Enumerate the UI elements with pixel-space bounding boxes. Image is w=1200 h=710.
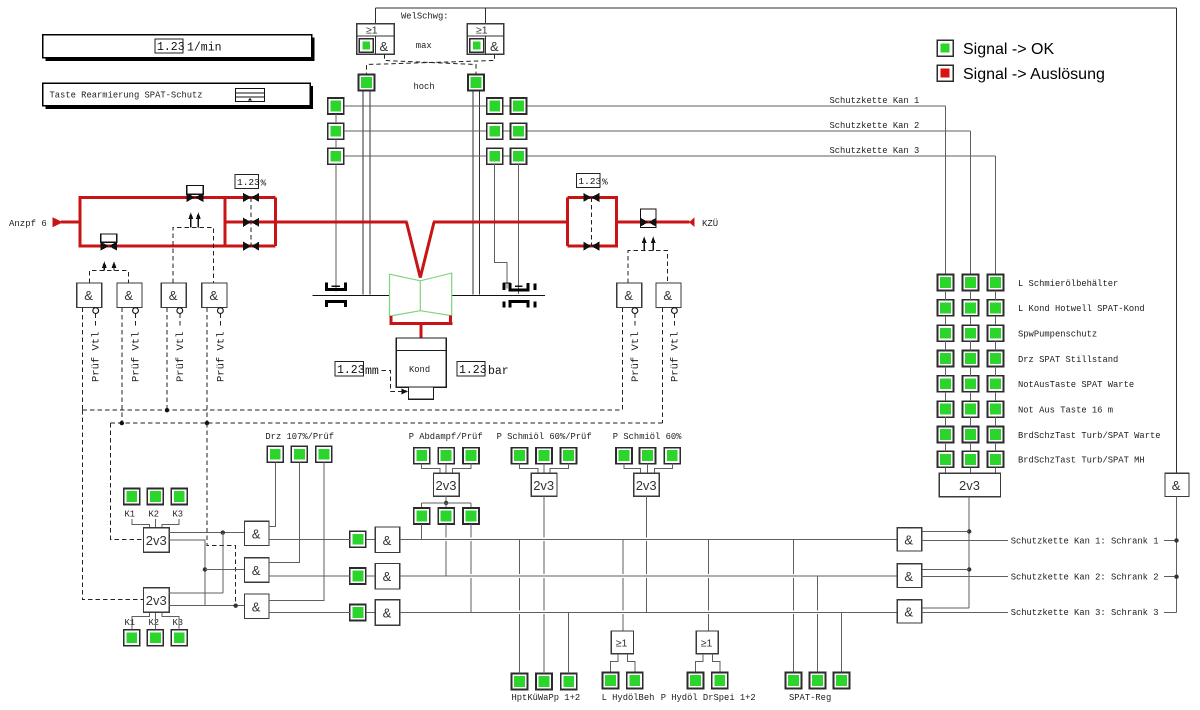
red feed arrow (53, 217, 64, 227)
loop2 valve bottom (583, 242, 599, 251)
actuator arrows valve V2 (102, 261, 117, 270)
svg-text:1.23: 1.23 (157, 41, 185, 54)
svg-text:Drz SPAT Stillstand: Drz SPAT Stillstand (1018, 355, 1118, 365)
bus Schutzkette 2 mid (400, 575, 897, 577)
indicator row3 (350, 604, 366, 620)
svg-text:P Schmiöl 60%: P Schmiöl 60% (613, 432, 682, 442)
actuator dashed link valve V1 (173, 227, 214, 283)
svg-text:max: max (416, 41, 432, 51)
indicator hoch right (468, 74, 484, 90)
OR gate L HydoelBeh (622, 539, 624, 631)
dashed cross wire right-to-left (367, 54, 495, 74)
turbine outline (390, 273, 452, 316)
wire 2v3 lower out2 to AND B3 (169, 605, 245, 607)
red pipe mid to turbine and on (276, 221, 408, 224)
svg-text:BrdSchzTast Turb/SPAT Warte: BrdSchzTast Turb/SPAT Warte (1018, 431, 1161, 441)
bearing left lower (327, 302, 346, 308)
2v3 box G2 (531, 473, 557, 496)
dashed valve link manifold (250, 197, 252, 246)
svg-text:K2: K2 (149, 618, 160, 628)
legend Ausloesung (937, 65, 1105, 83)
svg-text:L Schmierölbehälter: L Schmierölbehälter (1018, 279, 1118, 289)
HptKueWaPp squares (511, 674, 527, 690)
actuator dashed link valve KZU (628, 251, 667, 283)
svg-text:Schutzkette Kan 1: Schrank 1: Schutzkette Kan 1: Schrank 1 (1011, 536, 1159, 546)
wires B outputs to indicators (269, 538, 350, 540)
actuator arrows valve KZU (642, 237, 656, 251)
dashed drop bus2 to 2v3 K-upper (111, 423, 145, 539)
G2 fan-in wires (519, 464, 538, 474)
svg-text:KZÜ: KZÜ (702, 218, 718, 229)
wire row Kan 2 (344, 130, 971, 132)
svg-text:Signal -> Auslösung: Signal -> Auslösung (963, 66, 1105, 83)
svg-text:&: & (1172, 478, 1181, 493)
G1 squares upper (414, 448, 430, 464)
right matrix squares col1 (938, 275, 954, 468)
svg-text:≥1: ≥1 (476, 25, 488, 37)
svg-text:&: & (252, 527, 261, 542)
svg-text:1.23: 1.23 (459, 364, 487, 377)
AND box A2 (117, 283, 143, 423)
svg-text:&: & (209, 288, 218, 303)
wire Drz2 to B2 (269, 462, 299, 562)
G3 drop to bus3 (645, 496, 647, 612)
red steam inlet V (407, 222, 435, 277)
svg-text:Prüf Vtl: Prüf Vtl (215, 332, 227, 382)
svg-text:BrdSchzTast Turb/SPAT MH: BrdSchzTast Turb/SPAT MH (1018, 456, 1145, 466)
svg-text:Drz 107%/Prüf: Drz 107%/Prüf (265, 432, 334, 442)
svg-text:&: & (383, 569, 392, 584)
svg-text:&: & (124, 288, 133, 303)
svg-text:&: & (624, 288, 633, 303)
AND box A5 (617, 283, 642, 410)
svg-text:NotAusTaste SPAT Warte: NotAusTaste SPAT Warte (1018, 380, 1134, 390)
svg-text:&: & (383, 606, 392, 621)
label Schrank 1 (1008, 534, 1164, 546)
gate U2 OR/AND right (467, 8, 504, 54)
loop2 valve top (583, 193, 599, 202)
svg-text:P Schmiöl 60%/Prüf: P Schmiöl 60%/Prüf (497, 432, 592, 442)
wire links left column (335, 114, 337, 123)
wires 2v3 into D gates (922, 531, 970, 533)
manifold valve mid (243, 218, 259, 227)
2v3 box G3 (634, 473, 660, 496)
svg-text:HptKüWaPp 1+2: HptKüWaPp 1+2 (512, 693, 581, 703)
G1 squares lower (414, 508, 430, 524)
manifold valve bottom (243, 242, 259, 251)
dashed test bus 2 (111, 422, 663, 424)
svg-text:mm: mm (365, 365, 379, 378)
AND box big right (1165, 473, 1189, 496)
red pipe loop1 (80, 197, 225, 246)
wire riser cross (222, 533, 224, 593)
wire Drz1 to B1 (269, 462, 275, 526)
right matrix squares col3 (988, 275, 1004, 468)
2v3 box upper (144, 528, 170, 553)
dashed test bus 1 (83, 409, 623, 411)
bus Schutzkette 3 mid (400, 611, 897, 613)
probe wires right pair (472, 90, 474, 294)
output wire Schrank 3 (922, 611, 1177, 613)
wire matrix 2v3 down (968, 497, 970, 608)
valve V1 top branch (187, 186, 204, 203)
svg-text:SpwPumpenschutz: SpwPumpenschutz (1018, 330, 1097, 340)
svg-text:2v3: 2v3 (146, 533, 167, 548)
svg-text:Prüf Vtl: Prüf Vtl (131, 332, 143, 382)
svg-text:Not Aus Taste 16 m: Not Aus Taste 16 m (1018, 405, 1113, 415)
svg-text:L HydölBeh: L HydölBeh (602, 693, 655, 703)
svg-text:2v3: 2v3 (959, 478, 980, 493)
AND box D2 (897, 564, 922, 588)
wire row Kan 1 (344, 105, 946, 107)
wires K squares to 2v3 lower (132, 612, 150, 630)
manifold valve top (243, 193, 259, 202)
right sensor pair squares (487, 98, 503, 114)
AND box C1 (375, 527, 400, 553)
svg-text:WelSchwg:: WelSchwg: (401, 12, 449, 22)
svg-text:SPAT-Reg: SPAT-Reg (789, 693, 831, 703)
svg-text:Prüf Vtl: Prüf Vtl (91, 332, 103, 382)
AND box D1 (897, 528, 922, 551)
K1 K2 K3 lower squares (124, 630, 140, 646)
red pipe feed (61, 221, 82, 224)
label 1.23 percent right (577, 174, 609, 188)
SPAT-Reg drops (792, 539, 794, 673)
svg-text:P Abdampf/Prüf: P Abdampf/Prüf (409, 432, 483, 442)
svg-text:1.23: 1.23 (237, 177, 260, 188)
svg-text:&: & (84, 288, 93, 303)
AND box B2 (245, 558, 270, 583)
label Schrank 3 (1008, 606, 1164, 618)
svg-text:&: & (169, 288, 178, 303)
label 1.23 percent left (235, 175, 266, 189)
G3 fan-in wires (624, 464, 641, 474)
AND box B1 (245, 521, 270, 545)
2v3 box lower (144, 588, 170, 613)
indicator row2 (350, 568, 366, 584)
HptKueWaPp drops (518, 539, 520, 673)
svg-text:Taste Rearmierung SPAT-Schutz: Taste Rearmierung SPAT-Schutz (50, 91, 203, 101)
red exhaust (389, 316, 392, 324)
output wire Schrank 1 (922, 540, 1177, 542)
dashed drop bus1 to 2v3 K-lower (83, 410, 144, 599)
actuator dashed link valve V2 (89, 271, 128, 283)
svg-text:%: % (602, 177, 608, 188)
svg-text:Schutzkette Kan 3: Schutzkette Kan 3 (830, 146, 920, 156)
AND box A1 (77, 283, 103, 410)
value box bar (457, 362, 509, 378)
svg-text:≥1: ≥1 (616, 638, 628, 650)
svg-text:K2: K2 (149, 510, 160, 520)
Drz squares (267, 446, 283, 462)
matrix column link wires (946, 291, 996, 474)
dashed valve link loop2 (590, 197, 592, 246)
svg-text:2v3: 2v3 (533, 478, 554, 493)
wire right pair straight down (518, 164, 520, 294)
G1 fan-out wires (445, 496, 447, 503)
svg-text:&: & (663, 288, 672, 303)
G2 squares (511, 448, 527, 464)
bearing right bars lower (502, 302, 505, 308)
wire 2v3 upper out1 to AND B1 (169, 532, 244, 534)
condenser Kond (396, 338, 446, 399)
wire left column down to bearing (335, 164, 337, 291)
AND box C2 (375, 563, 400, 589)
red arrow KZU (689, 217, 695, 227)
svg-text:&: & (904, 533, 913, 548)
svg-text:≥1: ≥1 (701, 638, 713, 650)
svg-text:Prüf Vtl: Prüf Vtl (175, 332, 187, 382)
dashed weave to AND C3 (207, 423, 236, 606)
svg-text:Kond: Kond (409, 365, 430, 375)
2v3 box matrix (939, 473, 1000, 497)
bearing left upper (327, 283, 346, 290)
svg-text:%: % (261, 178, 267, 189)
svg-text:Schutzkette Kan 2: Schutzkette Kan 2 (830, 121, 920, 131)
svg-text:&: & (904, 605, 913, 620)
output wire Schrank 2 (922, 576, 1177, 578)
2v3 box G1 (434, 473, 460, 496)
svg-text:&: & (904, 569, 913, 584)
svg-text:2v3: 2v3 (436, 478, 457, 493)
wire to AND B2 (205, 569, 245, 571)
right matrix squares col2 (963, 275, 979, 468)
probe wires left pair (362, 90, 364, 294)
svg-text:L Kond Hotwell SPAT-Kond: L Kond Hotwell SPAT-Kond (1018, 304, 1145, 314)
svg-text:Prüf Vtl: Prüf Vtl (669, 332, 681, 382)
dashed cross wire left-to-right (385, 54, 477, 74)
wire Drz3 to B3 (269, 462, 324, 600)
valve KZU (640, 209, 656, 228)
svg-text:Signal -> OK: Signal -> OK (963, 41, 1054, 58)
indicator hoch left (359, 74, 375, 90)
wire row Kan 3 (344, 155, 996, 157)
svg-text:bar: bar (488, 365, 509, 378)
indicator row1 (350, 531, 366, 547)
bus Schutzkette 1 mid (400, 538, 897, 540)
red pipe loop2 (567, 197, 616, 246)
svg-text:Schutzkette Kan 2: Schrank 2: Schutzkette Kan 2: Schrank 2 (1011, 573, 1159, 583)
wires K squares to 2v3 upper (132, 519, 150, 528)
svg-text:K3: K3 (173, 618, 184, 628)
G2 drop long (543, 496, 545, 665)
wire 2v3 upper out2 (169, 540, 205, 606)
svg-text:≥1: ≥1 (366, 25, 378, 37)
svg-text:&: & (252, 563, 261, 578)
svg-text:1/min: 1/min (187, 42, 222, 55)
valve V2 bottom branch (101, 234, 117, 251)
AND box A4 (202, 283, 228, 423)
wire right riser to AND (1176, 8, 1178, 473)
bearing right upper (510, 283, 528, 290)
shaft line (313, 294, 390, 296)
actuator arrows valve V1 (188, 212, 201, 227)
top trip bus wire (375, 7, 1176, 9)
display box speed 1/min (43, 35, 315, 62)
svg-text:Prüf Vtl: Prüf Vtl (630, 332, 642, 382)
AND box A3 (161, 283, 187, 410)
value box mm (335, 362, 408, 395)
G1 fan-in wires (422, 464, 440, 474)
G3 squares (616, 448, 632, 464)
svg-text:Anzpf 6: Anzpf 6 (9, 219, 47, 229)
svg-text:&: & (380, 39, 389, 54)
red manifold 3 branches (225, 197, 276, 246)
label Schrank 2 (1008, 570, 1164, 583)
svg-text:&: & (490, 39, 499, 54)
G1 drops to buses (421, 524, 423, 539)
svg-text:&: & (252, 599, 261, 614)
legend OK (937, 40, 1054, 58)
svg-text:&: & (383, 533, 392, 548)
AND box A6 (656, 283, 682, 423)
wire right pair down with jog (495, 164, 507, 288)
svg-text:1.23: 1.23 (337, 364, 365, 377)
svg-text:K1: K1 (125, 510, 136, 520)
red pipe to KZU valve (617, 221, 690, 224)
K1 K2 K3 upper squares (124, 489, 140, 505)
svg-text:Schutzkette Kan 1: Schutzkette Kan 1 (830, 96, 920, 106)
svg-text:P Hydöl DrSpei 1+2: P Hydöl DrSpei 1+2 (661, 693, 756, 703)
svg-text:2v3: 2v3 (636, 478, 657, 493)
svg-text:K1: K1 (125, 618, 136, 628)
svg-text:K3: K3 (173, 510, 184, 520)
AND box B3 (245, 594, 270, 619)
AND box C3 (375, 600, 400, 626)
OR gate P Hydoel DrSpei (708, 539, 710, 631)
svg-text:Schutzkette Kan 3: Schrank 3: Schutzkette Kan 3: Schrank 3 (1011, 608, 1159, 618)
bearing right lower (510, 302, 528, 308)
svg-text:hoch: hoch (414, 82, 435, 92)
gate U1 OR/AND left (357, 8, 395, 54)
wire right AND down (1176, 497, 1178, 613)
svg-text:2v3: 2v3 (146, 593, 167, 608)
svg-text:1.23: 1.23 (578, 176, 601, 187)
button box Taste Rearmierung SPAT-Schutz (43, 83, 314, 109)
SPAT-Reg squares (785, 673, 801, 689)
bearing right bars upper (502, 283, 505, 290)
AND box D3 (897, 600, 922, 623)
left sensor column squares (328, 98, 344, 114)
